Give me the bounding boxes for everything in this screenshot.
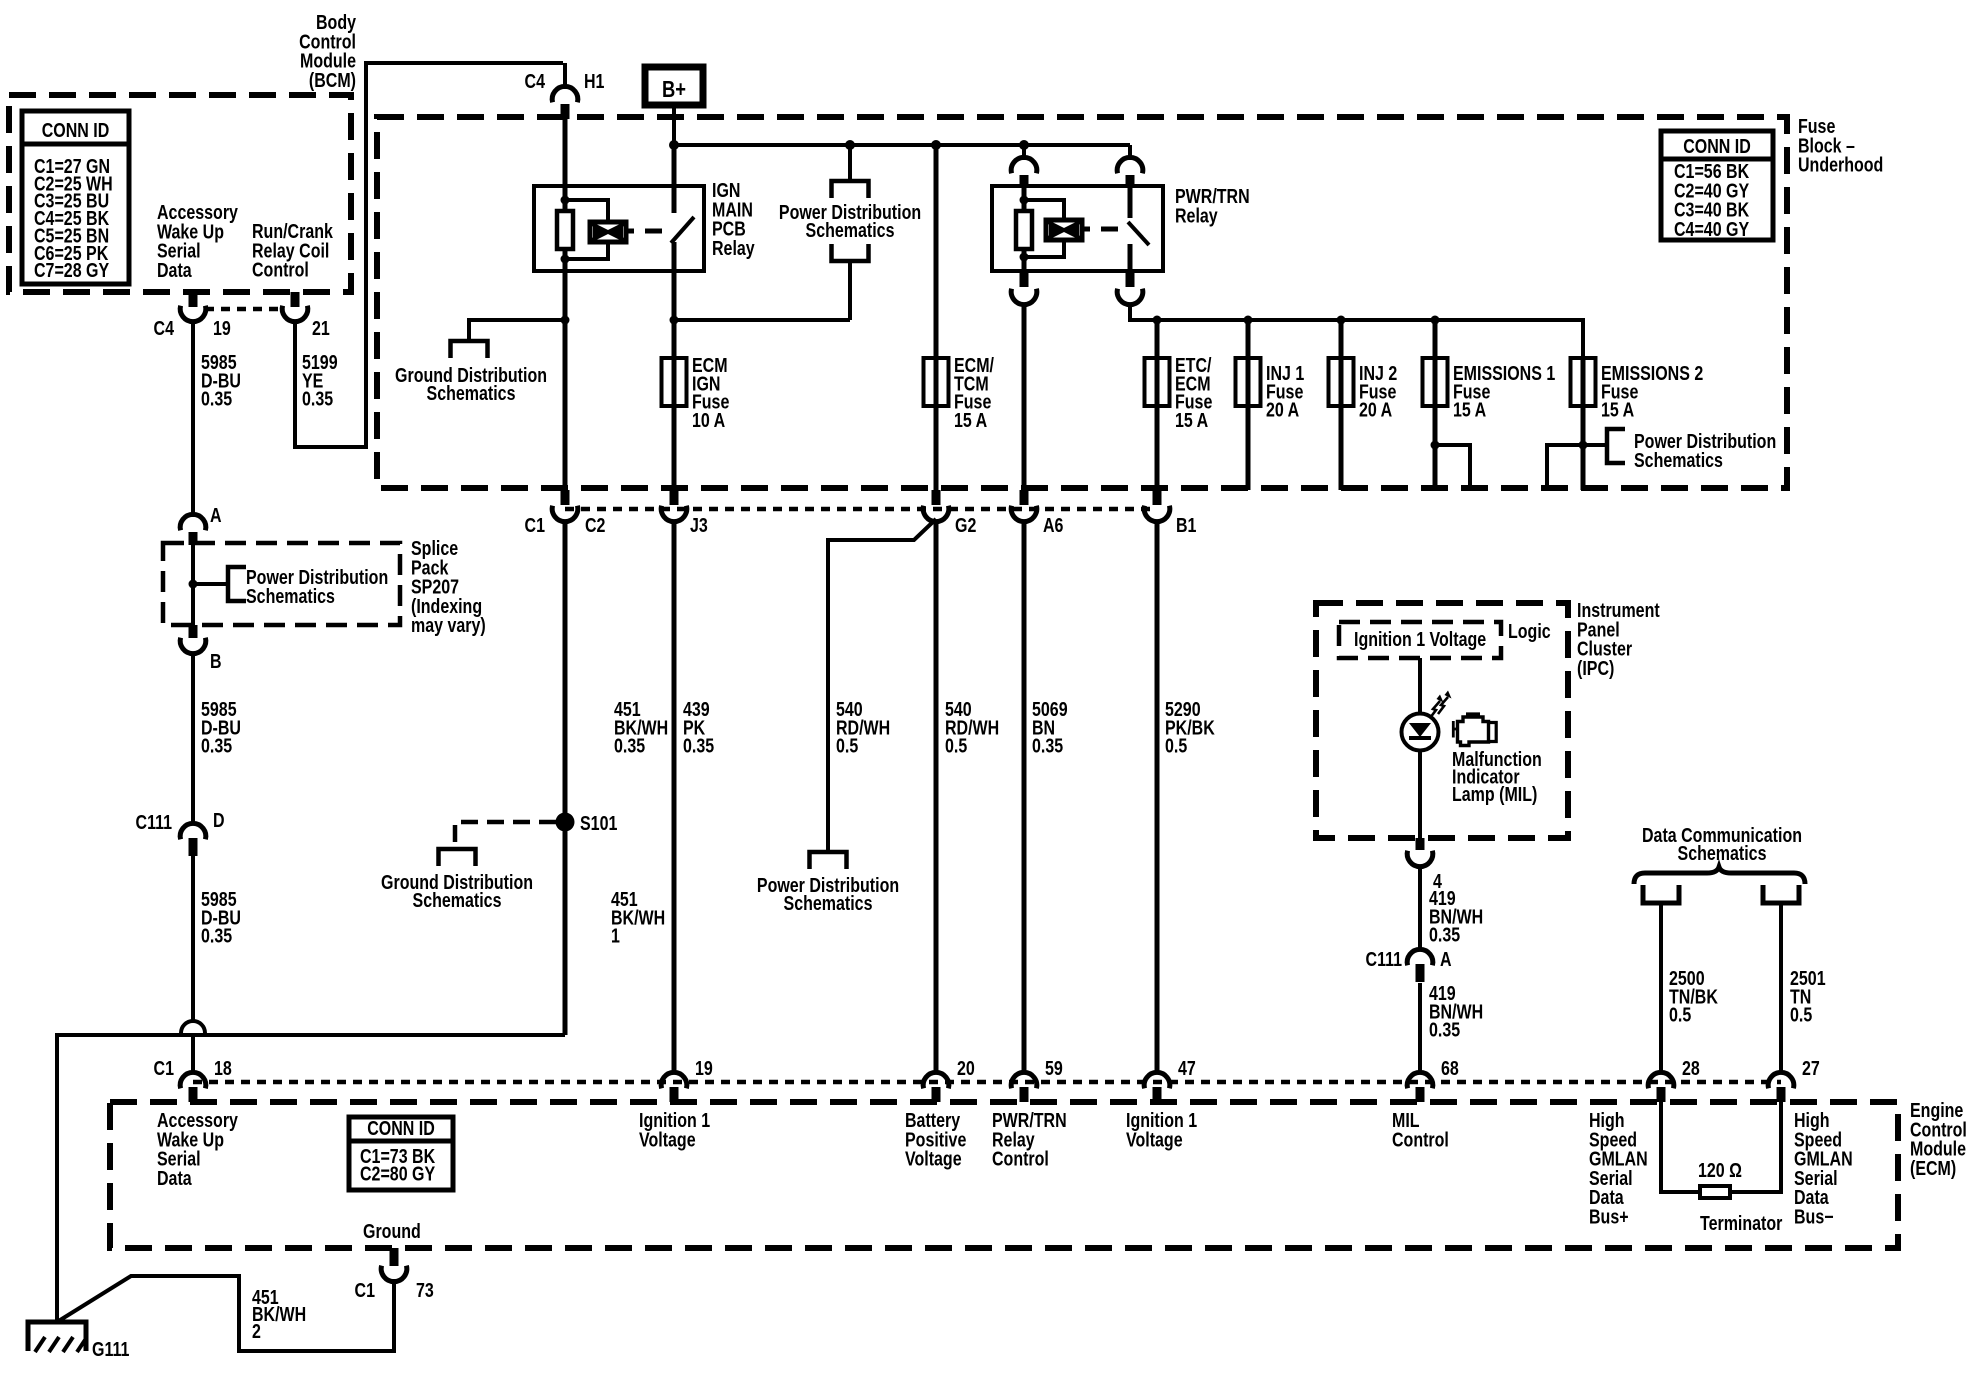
- relay switch feed wire: [1128, 188, 1133, 218]
- wire hop (5985 over 451): [181, 1021, 205, 1033]
- svg-text:0.5: 0.5: [1165, 735, 1187, 757]
- junction node: [1431, 316, 1440, 325]
- relay solenoid branch wire return: [1024, 240, 1064, 257]
- wire through splice pack: [191, 543, 195, 625]
- relay switch output wire: [1128, 244, 1133, 271]
- svg-text:C4: C4: [154, 317, 174, 339]
- wire 5199 YE 0.35 (BCM 21 to fuse block H1): [295, 63, 563, 447]
- fuse ECM IGN 10A: [672, 358, 677, 406]
- wire 5069 BN 0.35 (A6 to ECM 59): [1022, 521, 1027, 1073]
- svg-text:47: 47: [1178, 1057, 1196, 1079]
- svg-text:C111: C111: [1366, 948, 1402, 970]
- svg-text:2: 2: [252, 1320, 261, 1342]
- connector C4 H1 (fuse block top): [563, 63, 567, 89]
- relay solenoid (coil) with X: [1046, 220, 1082, 240]
- wire INJ 1 fuse feed: [1246, 320, 1251, 358]
- svg-text:19: 19: [213, 317, 231, 339]
- junction node: [1019, 140, 1029, 150]
- connector pin C1/C2 (fuse block bottom): [561, 490, 570, 505]
- wire EMISSIONS 1 fuse feed: [1433, 320, 1438, 358]
- connector node A: [180, 514, 206, 530]
- svg-text:20 A: 20 A: [1359, 399, 1392, 421]
- wire MIL LED to IPC pin 4: [1418, 751, 1422, 838]
- off-page connector (GMLAN bus +): [1643, 885, 1679, 903]
- MIL LED indicator: [1402, 714, 1439, 751]
- dotted connector face (ECM top): [193, 1080, 1781, 1085]
- svg-text:Schematics: Schematics: [413, 889, 502, 911]
- svg-text:Control: Control: [1392, 1129, 1449, 1151]
- connector pin (PWR/TRN relay coil, bottom): [1020, 271, 1029, 287]
- dotted connector face (fuse block bottom): [565, 507, 1157, 512]
- fuse INJ 2 20A: [1339, 358, 1344, 406]
- wire EMISSIONS 2 branch left: [1547, 445, 1583, 490]
- junction node: [1244, 316, 1253, 325]
- relay mechanical link dashes: [1082, 227, 1090, 232]
- relay coil ground wire (to C1/C2): [563, 249, 568, 329]
- connector pin 68 (ECM): [1407, 1072, 1433, 1088]
- svg-text:C2: C2: [585, 514, 605, 536]
- fuse EMISSIONS 2 15A: [1581, 358, 1586, 406]
- off-page connector (GMLAN bus -): [1763, 885, 1799, 903]
- wire 451 BK/WH ground run to G111: [57, 1035, 565, 1322]
- relay coil output wire: [1022, 249, 1027, 271]
- fuse ETC/ECM 15A: [1155, 358, 1160, 406]
- svg-text:Relay: Relay: [1175, 205, 1218, 227]
- svg-text:0.5: 0.5: [945, 735, 967, 757]
- connector pin 18 (ECM): [180, 1072, 206, 1088]
- connector node B: [189, 625, 198, 638]
- svg-text:Logic: Logic: [1508, 620, 1551, 642]
- wire 451 BK/WH 0.35 (C1/C2 to S101): [563, 521, 568, 822]
- svg-text:15 A: 15 A: [1601, 399, 1634, 421]
- svg-text:1: 1: [611, 925, 620, 947]
- connector pin B1: [1153, 490, 1162, 505]
- svg-text:0.35: 0.35: [683, 735, 714, 757]
- off-page symbol Power Distribution Schematics (splice pack): [228, 567, 246, 601]
- Engine Control Module (ECM) box: [110, 1102, 1898, 1248]
- svg-text:120 Ω: 120 Ω: [1698, 1159, 1742, 1181]
- connector pin 28 (ECM): [1648, 1072, 1674, 1088]
- junction node: [669, 140, 679, 150]
- wire 5985 D-BU 0.35 (C111 to ECM 18): [191, 855, 195, 1023]
- connector pin 20 (ECM): [923, 1072, 949, 1088]
- wire linking element to ECM IGN fuse feed: [674, 318, 850, 322]
- svg-text:Bus+: Bus+: [1589, 1206, 1629, 1228]
- relay coil wire: [1022, 188, 1027, 213]
- connector pin A6: [1020, 490, 1029, 505]
- svg-text:(BCM): (BCM): [309, 69, 356, 91]
- svg-text:21: 21: [312, 317, 330, 339]
- wire ECM/TCM fuse to G2: [934, 406, 939, 490]
- svg-text:0.35: 0.35: [201, 388, 232, 410]
- svg-text:0.35: 0.35: [614, 735, 645, 757]
- bus wire (battery feed inside fuse block): [674, 143, 1130, 147]
- connector C111 pin D: [180, 823, 206, 839]
- wire Ignition 1 Voltage to MIL LED: [1418, 658, 1422, 713]
- svg-text:Bus−: Bus−: [1794, 1206, 1834, 1228]
- off-page symbol Power Distribution Schematics (emissions): [1607, 429, 1625, 463]
- wire to off-page symbol: [193, 582, 228, 586]
- Body Control Module (BCM) box: [9, 95, 351, 292]
- wire EMISSIONS 1 fuse output: [1433, 406, 1438, 490]
- svg-text:59: 59: [1045, 1057, 1063, 1079]
- svg-text:18: 18: [214, 1057, 232, 1079]
- junction node: [561, 255, 570, 264]
- dotted connector face C4: [205, 307, 283, 312]
- wire 451 BK/WH 2 (ECM 73 to G111): [57, 1276, 394, 1351]
- wire 2501 TN 0.5 to ECM 27: [1779, 903, 1783, 1073]
- svg-text:15 A: 15 A: [1453, 399, 1486, 421]
- connector pin C1 73 (ECM ground): [390, 1248, 399, 1266]
- junction node SP207: [189, 580, 198, 589]
- junction node: [1579, 441, 1588, 450]
- relay solenoid branch wire return: [565, 242, 608, 259]
- svg-text:B1: B1: [1176, 514, 1196, 536]
- connector pin 27 (ECM): [1768, 1072, 1794, 1088]
- svg-text:C4: C4: [525, 70, 545, 92]
- connector pin (PWR/TRN relay switch, bottom): [1126, 271, 1135, 287]
- ECM CONN ID table: [349, 1117, 453, 1190]
- wire B+ to bus: [672, 106, 676, 145]
- wire INJ 2 fuse output: [1339, 406, 1344, 490]
- svg-text:20: 20: [957, 1057, 975, 1079]
- off-page element Power Distribution Schematics (battery feed): [848, 145, 852, 181]
- wire INJ 2 fuse feed: [1339, 320, 1344, 358]
- Fuse Block CONN ID table: [1661, 131, 1773, 240]
- svg-text:(ECM): (ECM): [1910, 1157, 1956, 1179]
- svg-text:0.5: 0.5: [836, 735, 858, 757]
- wire 451 BK/WH 1 (S101 to ground run): [563, 822, 568, 1035]
- svg-text:19: 19: [695, 1057, 713, 1079]
- splice S101: [556, 813, 575, 832]
- connector pin J3: [670, 490, 679, 505]
- svg-text:0.35: 0.35: [1429, 924, 1460, 946]
- svg-text:0.35: 0.35: [201, 735, 232, 757]
- wire ETC/ECM fuse to B1: [1155, 406, 1160, 490]
- svg-text:may vary): may vary): [411, 615, 486, 637]
- wire EMISSIONS 2 fuse output: [1581, 406, 1586, 490]
- junction node S (coil ground): [561, 316, 570, 325]
- svg-text:28: 28: [1682, 1057, 1700, 1079]
- wire PWR/TRN switch output bus: [1130, 303, 1583, 358]
- junction node: [1020, 253, 1029, 262]
- svg-text:73: 73: [416, 1279, 434, 1301]
- junction node: [1431, 441, 1440, 450]
- relay switch blade: [1128, 222, 1149, 245]
- svg-text:Voltage: Voltage: [905, 1148, 962, 1170]
- svg-text:B+: B+: [662, 77, 686, 102]
- relay solenoid (coil) with X: [590, 222, 626, 242]
- MIL engine icon: [1453, 714, 1496, 746]
- svg-text:15 A: 15 A: [954, 409, 987, 431]
- terminator resistor 120 ohm: [1700, 1186, 1730, 1198]
- connector pin 59 (ECM): [1011, 1072, 1037, 1088]
- svg-text:0.35: 0.35: [1032, 735, 1063, 757]
- svg-text:0.35: 0.35: [1429, 1019, 1460, 1041]
- wire 2500 TN/BK 0.5 to ECM 28: [1659, 903, 1663, 1073]
- svg-text:0.35: 0.35: [201, 925, 232, 947]
- svg-text:A: A: [1440, 948, 1452, 970]
- connector C4 pin 19 (BCM): [189, 292, 198, 307]
- wire ECM/TCM fuse feed: [934, 145, 939, 358]
- GMLAN terminator wires: [1661, 1102, 1700, 1192]
- junction node: [670, 316, 679, 325]
- svg-text:Schematics: Schematics: [784, 892, 873, 914]
- svg-text:C1: C1: [525, 514, 545, 536]
- fuse EMISSIONS 1 15A: [1433, 358, 1438, 406]
- relay mechanical link dashes: [626, 229, 634, 234]
- svg-text:Underhood: Underhood: [1798, 154, 1883, 176]
- off-page symbol Ground Distribution Schematics: [451, 341, 488, 358]
- svg-text:J3: J3: [690, 514, 708, 536]
- wire 5985 D-BU 0.35 (BCM 19 to node A): [191, 320, 195, 517]
- junction node: [845, 140, 855, 150]
- wire EMISSIONS 2 branch to off-page symbol: [1583, 443, 1607, 447]
- svg-text:27: 27: [1802, 1057, 1820, 1079]
- svg-text:15 A: 15 A: [1175, 409, 1208, 431]
- svg-text:0.5: 0.5: [1669, 1004, 1691, 1026]
- svg-text:Voltage: Voltage: [1126, 1129, 1183, 1151]
- connector pin 4 (IPC bottom): [1416, 838, 1425, 850]
- off-page symbol Power Distribution Schematics (battery positive): [810, 852, 847, 869]
- junction node: [1153, 316, 1162, 325]
- wire 439 PK 0.35 (J3 to ECM 19): [672, 521, 677, 1073]
- wire ECM IGN fuse to J3: [672, 406, 677, 490]
- svg-text:CONN ID: CONN ID: [367, 1117, 435, 1139]
- svg-text:C1: C1: [154, 1057, 174, 1079]
- svg-text:C1: C1: [355, 1279, 375, 1301]
- svg-text:Terminator: Terminator: [1700, 1212, 1782, 1234]
- relay switch output wire: [672, 242, 677, 358]
- svg-text:A: A: [210, 504, 222, 526]
- svg-text:H1: H1: [584, 70, 604, 92]
- wire 540 RD/WH 0.5 (G2 to ECM 20): [934, 521, 939, 1073]
- svg-text:Control: Control: [992, 1148, 1049, 1170]
- svg-text:Data: Data: [157, 259, 192, 281]
- svg-text:Schematics: Schematics: [246, 585, 335, 607]
- svg-text:B: B: [210, 650, 222, 672]
- svg-text:S101: S101: [580, 812, 617, 834]
- relay IGN MAIN PCB box: [534, 186, 704, 271]
- svg-text:Control: Control: [252, 259, 309, 281]
- connector C111 pin A (MIL): [1407, 949, 1433, 965]
- svg-text:CONN ID: CONN ID: [1683, 135, 1751, 157]
- wire ETC/ECM fuse feed: [1155, 320, 1160, 358]
- wire EMISSIONS 1 branch: [1435, 445, 1470, 490]
- relay switch blade: [671, 217, 694, 243]
- svg-text:68: 68: [1441, 1057, 1459, 1079]
- svg-text:C4=40 GY: C4=40 GY: [1674, 218, 1749, 240]
- svg-text:20 A: 20 A: [1266, 399, 1299, 421]
- connector pin (PWR/TRN relay coil, top): [1022, 145, 1026, 160]
- svg-text:G2: G2: [955, 514, 976, 536]
- svg-text:A6: A6: [1043, 514, 1063, 536]
- B+ battery feed box: [645, 67, 703, 105]
- BCM CONN ID table: [22, 111, 129, 284]
- wire 419 BN/WH 0.35 (IPC to C111): [1418, 866, 1422, 950]
- dashed tap to Ground Distribution Schematics: [455, 822, 556, 849]
- Ignition 1 Voltage logic box: [1339, 622, 1501, 658]
- svg-text:Schematics: Schematics: [806, 219, 895, 241]
- brace: [1634, 867, 1805, 884]
- Fuse Block - Underhood box: [377, 117, 1787, 488]
- relay solenoid branch wire: [1024, 200, 1064, 220]
- relay solenoid branch wire: [565, 200, 608, 222]
- svg-text:Schematics: Schematics: [427, 382, 516, 404]
- wire 5290 PK/BK 0.5 (B1 to ECM 47): [1155, 521, 1160, 1073]
- Instrument Panel Cluster (IPC) box: [1316, 603, 1568, 838]
- svg-text:D: D: [213, 809, 225, 831]
- ground G111: [28, 1322, 86, 1352]
- wire 419 BN/WH 0.35 (C111 to ECM 68): [1418, 983, 1422, 1073]
- svg-text:Ignition 1 Voltage: Ignition 1 Voltage: [1354, 628, 1486, 650]
- svg-text:Ground: Ground: [363, 1220, 421, 1242]
- svg-text:C111: C111: [136, 811, 172, 833]
- junction node: [931, 140, 941, 150]
- wire PWR/TRN coil to A6: [1022, 303, 1027, 490]
- connector pin 47 (ECM): [1144, 1072, 1170, 1088]
- fuse ECM/TCM 15A: [934, 358, 939, 406]
- connector pin 19 (ECM): [661, 1072, 687, 1088]
- Splice Pack SP207 dashed box: [163, 543, 400, 625]
- svg-text:Schematics: Schematics: [1634, 449, 1723, 471]
- junction node: [1020, 196, 1029, 205]
- svg-text:C7=28 GY: C7=28 GY: [34, 259, 109, 281]
- svg-text:Voltage: Voltage: [639, 1129, 696, 1151]
- relay coil feed wire (from H1): [563, 119, 568, 211]
- svg-text:Relay: Relay: [712, 237, 755, 259]
- off-page symbol Ground Distribution Schematics (S101): [439, 849, 476, 866]
- svg-text:0.5: 0.5: [1790, 1004, 1812, 1026]
- svg-text:(IPC): (IPC): [1577, 657, 1614, 679]
- svg-text:Lamp (MIL): Lamp (MIL): [1452, 783, 1537, 805]
- relay switch feed wire (B+): [672, 145, 677, 213]
- relay coil resistor: [1016, 211, 1032, 249]
- wire to Ground Distribution Schematics: [469, 320, 565, 341]
- fuse INJ 1 20A: [1246, 358, 1251, 406]
- svg-text:Schematics: Schematics: [1678, 842, 1767, 864]
- svg-text:C2=80 GY: C2=80 GY: [360, 1163, 435, 1185]
- svg-text:CONN ID: CONN ID: [42, 119, 110, 141]
- wire INJ 1 fuse output: [1246, 406, 1251, 490]
- svg-text:Data: Data: [157, 1167, 192, 1189]
- svg-text:0.35: 0.35: [302, 388, 333, 410]
- connector pin G2: [932, 490, 941, 505]
- relay PWR/TRN box: [992, 186, 1163, 271]
- wire 540 RD/WH 0.5 branch (G2 to Power Distribution): [828, 519, 936, 852]
- junction node: [1337, 316, 1346, 325]
- LED light arrows: [1430, 697, 1448, 718]
- junction node: [561, 196, 570, 205]
- wire 5985 D-BU 0.35 (B to C111): [191, 652, 195, 824]
- svg-text:G111: G111: [92, 1338, 129, 1360]
- svg-text:10 A: 10 A: [692, 409, 725, 431]
- connector C4 pin 21 (BCM): [291, 292, 300, 307]
- relay coil ground wire continues to C1: [563, 320, 568, 490]
- connector pin (PWR/TRN relay switch, top): [1128, 145, 1132, 160]
- relay coil resistor: [557, 211, 573, 249]
